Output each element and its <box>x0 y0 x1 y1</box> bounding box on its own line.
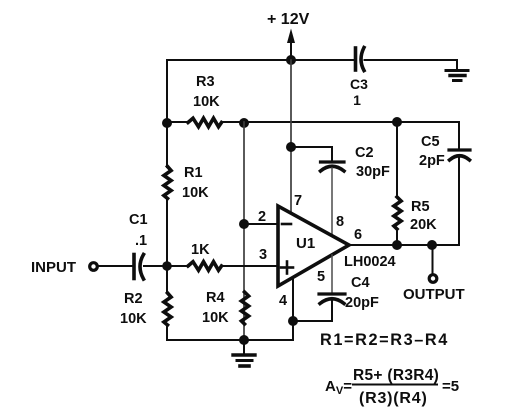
svg-text:U1: U1 <box>296 235 315 252</box>
node junction output <box>427 240 437 250</box>
capacitor C3 <box>350 48 368 109</box>
wire pin 5 down <box>331 255 333 292</box>
svg-text:30pF: 30pF <box>356 164 390 180</box>
node junction ground rail <box>239 335 249 345</box>
wire top rail right of C3 <box>365 59 458 61</box>
ground (bottom) <box>233 340 255 366</box>
capacitor C4 20pF <box>319 275 379 311</box>
svg-text:R5: R5 <box>411 199 430 215</box>
wire C4 bottom to pin4 node <box>293 300 332 321</box>
wire left rail (upper) <box>166 60 168 167</box>
node junction C2 branch <box>286 142 296 152</box>
node junction left rail / R3 <box>162 118 172 128</box>
capacitor C5 2pF <box>419 122 470 245</box>
node junction pin2 <box>239 219 249 229</box>
resistor R2 10K <box>120 291 171 327</box>
wire C1 to node A <box>144 265 189 267</box>
svg-text:1: 1 <box>353 92 361 108</box>
svg-text:(R3)(R4): (R3)(R4) <box>359 390 428 407</box>
svg-text:=5: =5 <box>442 378 459 395</box>
wire top rail left of C3 <box>167 59 353 61</box>
svg-text:10K: 10K <box>182 185 209 201</box>
svg-text:OUTPUT: OUTPUT <box>403 286 465 303</box>
wire 1K to pin 3 <box>222 265 278 267</box>
wire bottom ground rail <box>167 339 293 341</box>
svg-text:6: 6 <box>354 227 362 243</box>
capacitor C1 .1 <box>129 212 148 279</box>
svg-text:C2: C2 <box>355 145 374 161</box>
svg-text:R1=R2=R3–R4: R1=R2=R3–R4 <box>320 331 449 349</box>
wire input to C1 <box>98 265 132 267</box>
node junction node B top <box>239 118 249 128</box>
resistor R5 20K <box>394 122 437 245</box>
node junction R5 top <box>392 117 402 127</box>
svg-text:10K: 10K <box>120 311 147 327</box>
svg-text:10K: 10K <box>202 310 229 326</box>
svg-text:R1: R1 <box>184 165 203 181</box>
wire pin 2 <box>244 223 278 225</box>
svg-text:R3: R3 <box>196 74 215 90</box>
svg-text:7: 7 <box>294 193 302 209</box>
node junction node A <box>162 261 172 271</box>
op-amp U1 <box>278 206 349 286</box>
terminal INPUT <box>90 263 98 271</box>
svg-text:2: 2 <box>258 209 266 225</box>
svg-text:C1: C1 <box>129 212 148 228</box>
svg-text:4: 4 <box>279 293 287 309</box>
svg-text:20pF: 20pF <box>345 295 379 311</box>
resistor R4 10K <box>202 290 249 326</box>
svg-text:8: 8 <box>336 214 344 230</box>
wire C2 to pin 8 <box>331 168 333 236</box>
resistor R1 10K <box>164 165 209 201</box>
svg-text:R5+ (R3R4): R5+ (R3R4) <box>353 367 439 384</box>
node junction pin4/C4 <box>288 316 298 326</box>
svg-text:R2: R2 <box>124 291 143 307</box>
svg-text:C4: C4 <box>351 275 370 291</box>
svg-text:2pF: 2pF <box>419 153 445 169</box>
svg-text:LH0024: LH0024 <box>344 254 396 270</box>
wire left rail (lower) <box>166 325 168 340</box>
resistor R3 10K <box>188 74 222 127</box>
wire +12V vertical down to pin 7 <box>290 60 292 213</box>
svg-text:5: 5 <box>317 269 325 285</box>
wire feedback line right <box>222 121 459 123</box>
svg-text:C5: C5 <box>421 134 440 150</box>
svg-text:20K: 20K <box>410 217 437 233</box>
svg-text:1K: 1K <box>191 242 210 258</box>
resistor 1K <box>188 242 222 270</box>
svg-text:10K: 10K <box>193 94 220 110</box>
svg-text:INPUT: INPUT <box>31 259 76 276</box>
label gain formula <box>325 367 459 407</box>
ground (top right) <box>446 60 468 81</box>
capacitor C2 30pF <box>321 145 390 180</box>
wire pin 6 output <box>349 244 459 246</box>
svg-text:R4: R4 <box>206 290 225 306</box>
node junction R5 bottom <box>392 240 402 250</box>
wire node B vertical <box>243 122 245 340</box>
svg-text:+ 12V: + 12V <box>267 11 310 28</box>
wire feedback line left <box>167 121 189 123</box>
wire C2 branch horizontal <box>291 147 332 160</box>
svg-text:.1: .1 <box>135 233 147 249</box>
wire left rail (middle) <box>166 199 168 293</box>
svg-text:3: 3 <box>259 247 267 263</box>
node junction +12V top rail <box>286 55 296 65</box>
svg-text:AV=: AV= <box>325 378 352 397</box>
svg-text:C3: C3 <box>350 76 368 92</box>
power arrow +12V <box>287 29 295 44</box>
terminal OUTPUT <box>432 245 434 273</box>
wire pin 4 down <box>292 277 294 340</box>
